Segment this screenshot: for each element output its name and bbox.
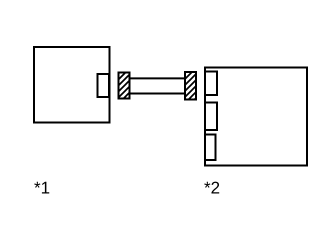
wire (top) — [129, 77, 186, 79]
connector housing *2 (right box) — [205, 68, 307, 166]
hatched plug (right half of coupler) — [185, 72, 196, 100]
connector housing *1 (left box) — [34, 47, 110, 123]
wire (bottom) — [129, 93, 186, 95]
terminal slot on left housing — [98, 74, 110, 97]
label *2 — [204, 182, 219, 194]
hatched plug (left half of coupler) — [119, 73, 130, 99]
terminal slot 1 on right housing — [205, 72, 217, 96]
label *1 — [34, 182, 49, 194]
terminal slot 2 on right housing — [205, 103, 217, 131]
terminal slot 3 on right housing — [205, 135, 216, 161]
